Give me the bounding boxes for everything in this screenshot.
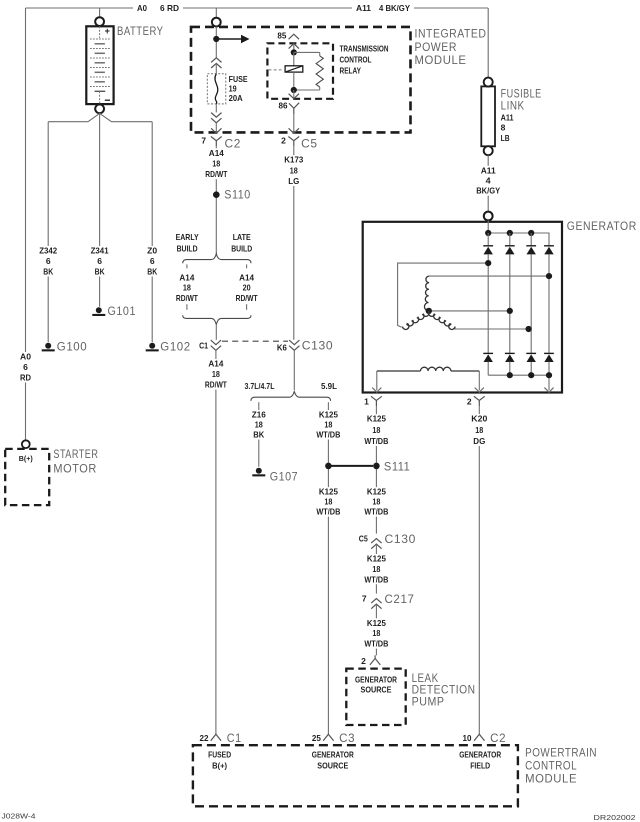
diode D5 — [483, 353, 493, 362]
diode D1 — [483, 246, 493, 255]
wire col1 mid — [487, 254, 489, 353]
junction IPM feed — [213, 36, 219, 42]
svg-text:BATTERY: BATTERY — [117, 26, 164, 38]
PCM connector C1 pin 22 — [211, 734, 221, 741]
diode D3 — [526, 246, 536, 255]
svg-text:Z16: Z16 — [252, 410, 266, 420]
fuse clip top — [211, 58, 221, 68]
label G107 — [270, 471, 299, 483]
svg-text:B(+): B(+) — [19, 454, 33, 463]
fusible link terminal bottom — [484, 146, 493, 155]
junction bottom bus col2 — [507, 372, 513, 378]
label S111 — [384, 462, 411, 474]
svg-text:WT/DB: WT/DB — [316, 507, 340, 517]
wire A0/A11 top feed — [26, 7, 489, 9]
ground G102 — [146, 343, 159, 352]
svg-text:C217: C217 — [385, 594, 415, 606]
svg-text:LINK: LINK — [501, 101, 525, 113]
wire Z341 battery to G101 — [99, 113, 101, 307]
svg-text:BK: BK — [253, 430, 265, 440]
label FUSIBLE LINK — [501, 89, 542, 113]
wire col2 bottom — [509, 362, 511, 376]
label EARLY BUILD / LATE BUILD — [174, 232, 254, 253]
wire Z16 to G107 — [258, 406, 260, 466]
wire K125 C130 to C217 — [375, 544, 377, 594]
label A14 20 RD/WT late — [234, 273, 259, 303]
svg-text:A11: A11 — [481, 165, 496, 175]
wire Z0 to G102 — [151, 122, 153, 343]
wire K6 to engine split — [293, 350, 295, 390]
svg-text:DETECTION: DETECTION — [412, 685, 476, 697]
wire col3 bottom — [530, 362, 532, 376]
svg-text:18: 18 — [255, 420, 263, 430]
connector C2 pin 7 female — [211, 128, 221, 133]
label GENERATOR — [567, 221, 637, 233]
svg-text:Z341: Z341 — [91, 246, 109, 256]
brace engine split — [251, 391, 331, 401]
label A14 18 RD/WT — [204, 148, 229, 179]
junction relay coil top — [291, 49, 297, 55]
label A14 18 RD/WT lower — [203, 359, 228, 390]
label K125 18 WT/DB to pump — [363, 618, 390, 649]
diode D2 — [505, 246, 515, 255]
wire K125 C217 to LDP — [375, 604, 377, 655]
svg-text:K125: K125 — [367, 414, 386, 424]
stator coil left — [402, 311, 429, 330]
in-line connector C130 cavity C1 — [211, 340, 221, 350]
svg-text:C130: C130 — [302, 341, 334, 353]
starter motor box — [5, 449, 49, 505]
wire Z342 to G100 — [47, 122, 49, 343]
label LEAK DETECTION PUMP — [412, 673, 476, 709]
in-line connector C130 cavity C5 — [371, 539, 381, 549]
wire field pin 2 — [478, 371, 480, 390]
wire col3 mid — [530, 254, 532, 353]
label C2 pcm — [490, 733, 506, 745]
label pin 2 — [281, 136, 286, 146]
svg-text:SOURCE: SOURCE — [361, 685, 392, 695]
svg-text:CONTROL: CONTROL — [340, 55, 372, 65]
junction phase C col3 — [526, 326, 532, 332]
TCR pin 86 edge crossing — [289, 90, 299, 99]
svg-text:20A: 20A — [229, 93, 243, 103]
label A11 4 BK/GY lower — [475, 165, 502, 195]
svg-text:25: 25 — [312, 733, 321, 743]
svg-text:2: 2 — [281, 136, 286, 146]
svg-text:MOTOR: MOTOR — [53, 464, 97, 476]
label FUSED B(+) — [208, 750, 231, 771]
svg-text:10: 10 — [463, 733, 472, 743]
ground G107 — [252, 468, 265, 477]
svg-text:CONTROL: CONTROL — [525, 761, 577, 773]
svg-text:PUMP: PUMP — [412, 697, 445, 709]
fuse F19 20A — [207, 74, 225, 104]
diode bus top — [488, 233, 549, 246]
svg-text:WT/DB: WT/DB — [364, 436, 388, 446]
wire col1 top — [487, 233, 489, 246]
label Z341 6 BK — [89, 246, 110, 277]
svg-text:18: 18 — [372, 564, 380, 574]
svg-text:BUILD: BUILD — [177, 243, 198, 253]
svg-text:5.9L: 5.9L — [321, 381, 337, 391]
svg-text:POWER: POWER — [415, 42, 458, 54]
svg-text:K125: K125 — [367, 554, 386, 564]
svg-text:C1: C1 — [199, 340, 208, 350]
svg-text:TRANSMISSION: TRANSMISSION — [340, 44, 389, 54]
svg-text:POWERTRAIN: POWERTRAIN — [525, 748, 597, 760]
wire K173 relay to C5 — [293, 114, 295, 133]
label 3.7L/4.7L and 5.9L — [245, 381, 338, 391]
svg-text:G107: G107 — [270, 471, 299, 483]
svg-text:RELAY: RELAY — [340, 66, 362, 76]
svg-text:DR202002: DR202002 — [594, 813, 636, 822]
TCR pin 85 edge crossing — [289, 44, 299, 50]
svg-text:7: 7 — [201, 136, 206, 146]
svg-text:WT/DB: WT/DB — [364, 507, 388, 517]
wire A14 C130 to PCM C1 — [215, 350, 217, 734]
svg-text:BK: BK — [95, 267, 106, 277]
label GENERATOR FIELD — [459, 750, 501, 771]
svg-text:G102: G102 — [160, 341, 191, 353]
svg-text:BK: BK — [43, 267, 54, 277]
label A0 6 RD — [133, 3, 183, 14]
battery terminal bottom — [95, 104, 104, 113]
label A14 18 RD/WT early — [174, 273, 199, 303]
svg-text:A14: A14 — [179, 273, 194, 283]
ground G101 — [92, 307, 105, 316]
svg-text:2: 2 — [361, 656, 366, 666]
diode bus bottom — [488, 374, 549, 376]
svg-text:RD/WT: RD/WT — [176, 293, 199, 303]
label A11 8 LB — [501, 112, 514, 142]
svg-text:C2: C2 — [490, 733, 506, 745]
svg-text:K125: K125 — [367, 487, 386, 497]
label G102 — [160, 341, 191, 353]
label 85 — [277, 31, 286, 41]
wire K20 gen pin2 to PCM C2 — [478, 406, 480, 734]
label G101 — [108, 306, 137, 318]
field pin 1 arrow — [372, 388, 381, 393]
brace early/late split — [183, 254, 251, 263]
relay coil suppression resistor — [294, 52, 324, 90]
svg-text:A0: A0 — [137, 3, 147, 13]
svg-text:FUSED: FUSED — [208, 750, 231, 760]
wire tick 5.9L branch — [327, 402, 329, 406]
label K173 18 LG — [283, 155, 305, 186]
junction stator center — [426, 308, 432, 314]
fuse clip bottom — [211, 113, 221, 123]
svg-text:+: + — [105, 26, 110, 36]
svg-text:LATE: LATE — [233, 232, 251, 242]
label K125 18 WT/DB to splice — [315, 410, 342, 440]
junction center tap col2 — [507, 308, 513, 314]
svg-text:A11: A11 — [501, 112, 514, 122]
svg-text:BUILD: BUILD — [231, 243, 252, 253]
wire to C2 — [215, 123, 217, 134]
wire A0 to starter motor — [25, 8, 27, 441]
svg-text:K125: K125 — [367, 618, 386, 628]
label 86 — [279, 100, 288, 110]
diode D4 — [544, 246, 554, 255]
svg-text:WT/DB: WT/DB — [364, 574, 388, 584]
wire col4 to case — [548, 362, 550, 391]
label G100 — [57, 341, 88, 353]
label C217 — [385, 594, 415, 606]
svg-text:C3: C3 — [339, 733, 355, 745]
field coil — [377, 367, 480, 371]
svg-text:WT/DB: WT/DB — [316, 430, 340, 440]
svg-text:LEAK: LEAK — [412, 673, 439, 685]
ground G100 — [42, 343, 55, 352]
splice S111 — [373, 463, 380, 470]
diode D8 — [544, 353, 554, 362]
svg-text:18: 18 — [372, 497, 380, 507]
label STARTER MOTOR — [53, 449, 98, 476]
svg-text:18: 18 — [212, 158, 220, 168]
svg-text:BK/GY: BK/GY — [476, 186, 500, 196]
label GENERATOR SOURCE in pump — [355, 674, 397, 694]
stator phase B wire — [429, 275, 549, 277]
wire battery ground fanout — [48, 113, 152, 121]
svg-text:STARTER: STARTER — [53, 449, 98, 461]
integrated power module box — [191, 27, 411, 132]
svg-text:86: 86 — [279, 100, 288, 110]
splice junction 5.9L — [325, 463, 332, 470]
in-line connector C130 cavity K6 — [289, 340, 299, 350]
svg-text:18: 18 — [324, 420, 332, 430]
stator coil vertical — [424, 276, 429, 311]
svg-text:SOURCE: SOURCE — [317, 760, 348, 770]
label cavity C1 — [199, 340, 208, 350]
svg-text:3.7L/4.7L: 3.7L/4.7L — [245, 381, 275, 391]
wire K125 5.9L branch to PCM C3 — [327, 406, 329, 734]
label LDP pin 2 — [361, 656, 366, 666]
svg-text:A14: A14 — [208, 359, 223, 369]
svg-text:22: 22 — [200, 733, 209, 743]
svg-text:A0: A0 — [20, 352, 31, 362]
svg-text:J028W-4: J028W-4 — [2, 812, 36, 821]
svg-text:Z0: Z0 — [147, 246, 157, 256]
wire A14 C2 to S110 — [215, 146, 217, 254]
label K125 18 WT/DB below S111 — [363, 487, 390, 517]
wire to C130 — [215, 325, 217, 340]
IPM terminal — [212, 18, 221, 27]
svg-text:G100: G100 — [57, 341, 88, 353]
label cavity 7 — [362, 593, 367, 603]
stator phase C wire — [455, 327, 529, 329]
diode D6 — [505, 353, 515, 362]
label pin 25 — [312, 733, 321, 743]
label J028W-4 — [2, 812, 36, 821]
svg-text:Z342: Z342 — [39, 246, 57, 256]
svg-text:C1: C1 — [227, 733, 242, 745]
svg-text:A14: A14 — [239, 273, 254, 283]
wire IPM feed stub — [215, 8, 217, 18]
svg-text:A11: A11 — [356, 3, 371, 13]
svg-text:RD: RD — [20, 373, 31, 383]
svg-text:A14: A14 — [209, 148, 224, 158]
label GENERATOR SOURCE pcm — [312, 750, 354, 771]
wire early build tick — [186, 264, 188, 268]
svg-text:C130: C130 — [385, 534, 417, 546]
svg-text:GENERATOR: GENERATOR — [312, 750, 354, 760]
svg-text:FIELD: FIELD — [470, 760, 490, 770]
starter motor terminal B(+) — [22, 440, 30, 448]
svg-text:B(+): B(+) — [212, 760, 227, 770]
svg-text:C5: C5 — [359, 533, 368, 543]
label gen pin 1 — [364, 397, 369, 407]
wire tick to merge — [186, 304, 188, 310]
svg-text:EARLY: EARLY — [176, 232, 199, 242]
junction bus col3 — [528, 230, 534, 236]
svg-text:RD/WT: RD/WT — [205, 380, 228, 390]
wire tick 3.7L branch — [258, 402, 260, 406]
wire late build tick — [246, 264, 248, 268]
svg-text:18: 18 — [324, 497, 332, 507]
label K125 18 WT/DB gen1 — [363, 414, 390, 446]
connector C5 pin 2 female — [289, 128, 299, 133]
wire col2 mid — [509, 254, 511, 353]
wire A11 to fusible link — [487, 8, 489, 78]
svg-text:6: 6 — [150, 256, 155, 266]
svg-text:K6: K6 — [277, 342, 287, 352]
label Z16 18 BK — [250, 410, 267, 440]
TCR pin 86 connector — [289, 103, 299, 114]
svg-text:RD/WT: RD/WT — [236, 293, 259, 303]
svg-text:6: 6 — [97, 256, 102, 266]
wire battery positive stub — [99, 8, 101, 17]
label cavity K6 — [277, 342, 287, 352]
transmission control relay box — [267, 43, 333, 99]
svg-text:MODULE: MODULE — [525, 774, 577, 786]
label S110 — [224, 190, 251, 202]
stator center tap wire — [429, 310, 510, 312]
wire IPM internal feed — [215, 27, 217, 58]
wire col1 bottom — [487, 362, 489, 376]
connector C5 pin 2 male — [288, 137, 299, 147]
label cavity C5 — [359, 533, 368, 543]
wire below fuse — [215, 104, 217, 113]
generator pin 2 connector — [474, 396, 485, 406]
junction bottom bus col4 — [546, 372, 552, 378]
label C130 — [302, 341, 334, 353]
relay coil K1 — [268, 52, 302, 90]
label C130 right — [385, 534, 417, 546]
svg-text:85: 85 — [277, 31, 286, 41]
wire field pin 1 — [376, 371, 378, 390]
label Z0 6 BK — [146, 246, 159, 277]
label C2 — [225, 139, 242, 151]
label pin 10 — [463, 733, 472, 743]
label BATTERY — [117, 26, 164, 38]
svg-text:6: 6 — [46, 256, 51, 266]
svg-text:GENERATOR: GENERATOR — [355, 674, 397, 684]
junction relay coil bottom — [291, 87, 297, 93]
svg-text:GENERATOR: GENERATOR — [567, 221, 637, 233]
leak detection pump box — [346, 669, 405, 725]
label K20 18 DG — [470, 414, 489, 446]
svg-text:18: 18 — [290, 165, 298, 175]
svg-text:2: 2 — [467, 397, 472, 407]
label FUSE 19 20A — [229, 74, 248, 103]
label pin 7 — [201, 136, 206, 146]
battery BATT — [86, 26, 113, 104]
TCR pin 85 stub — [289, 34, 299, 39]
svg-text:S110: S110 — [224, 190, 251, 202]
svg-text:WT/DB: WT/DB — [364, 639, 388, 649]
svg-text:8: 8 — [501, 123, 506, 133]
in-line connector C217 cavity 7 — [371, 599, 381, 609]
label C3 — [339, 733, 355, 745]
wire tick to merge 2 — [246, 304, 248, 310]
svg-text:K125: K125 — [319, 487, 338, 497]
label POWERTRAIN CONTROL MODULE — [525, 748, 597, 786]
wire col4 mid — [548, 254, 550, 353]
wire K173 C5 to C130 — [293, 146, 295, 340]
powertrain control module box — [193, 745, 518, 806]
svg-text:18: 18 — [183, 282, 191, 292]
svg-text:BK: BK — [147, 267, 158, 277]
label pin 22 — [200, 733, 209, 743]
label Z342 6 BK — [38, 246, 59, 277]
svg-text:RD/WT: RD/WT — [205, 169, 228, 179]
svg-text:1: 1 — [364, 397, 369, 407]
junction bottom bus col3 — [528, 372, 534, 378]
LDP pin 2 connector — [370, 655, 380, 665]
dashed C130 connector link — [222, 340, 288, 342]
stator phase A wire — [398, 263, 489, 327]
label K125 18 WT/DB below splice — [315, 487, 342, 517]
battery terminal top — [95, 17, 104, 26]
label K125 18 WT/DB mid — [363, 554, 390, 585]
generator case arrow — [544, 388, 553, 393]
svg-text:18: 18 — [212, 369, 220, 379]
label DR202002 — [594, 813, 636, 822]
svg-text:K20: K20 — [471, 414, 487, 424]
svg-text:LG: LG — [288, 176, 299, 186]
splice S110 — [213, 191, 220, 198]
arrow feed to other circuits — [219, 35, 250, 43]
junction bus col1 — [485, 230, 491, 236]
wire col3 top — [530, 233, 532, 246]
wire terminal to diode bus — [487, 220, 489, 233]
diode D7 — [526, 353, 536, 362]
svg-text:GENERATOR: GENERATOR — [459, 750, 501, 760]
svg-text:MODULE: MODULE — [415, 55, 467, 67]
label INTEGRATED POWER MODULE — [415, 28, 487, 67]
wire K125 gen to C130 — [375, 406, 377, 534]
svg-text:DG: DG — [473, 436, 485, 446]
svg-text:6: 6 — [23, 362, 28, 372]
svg-text:18: 18 — [372, 628, 380, 638]
label C1 — [227, 733, 242, 745]
generator output terminal — [484, 212, 493, 221]
fusible link body — [481, 86, 495, 146]
brace early/late merge — [183, 315, 251, 324]
junction phase B col4 — [546, 273, 552, 279]
junction phase A col1 — [485, 260, 491, 266]
svg-text:4 BK/GY: 4 BK/GY — [379, 3, 410, 13]
svg-text:INTEGRATED: INTEGRATED — [415, 28, 487, 40]
svg-text:FUSIBLE: FUSIBLE — [501, 89, 542, 101]
stator coil right — [428, 311, 455, 330]
generator pin 1 connector — [371, 396, 382, 406]
svg-text:7: 7 — [362, 593, 367, 603]
junction bus col2 — [507, 230, 513, 236]
fusible link terminal top — [484, 78, 493, 87]
label A11 4 BK/GY — [352, 3, 414, 14]
svg-text:18: 18 — [372, 425, 380, 435]
